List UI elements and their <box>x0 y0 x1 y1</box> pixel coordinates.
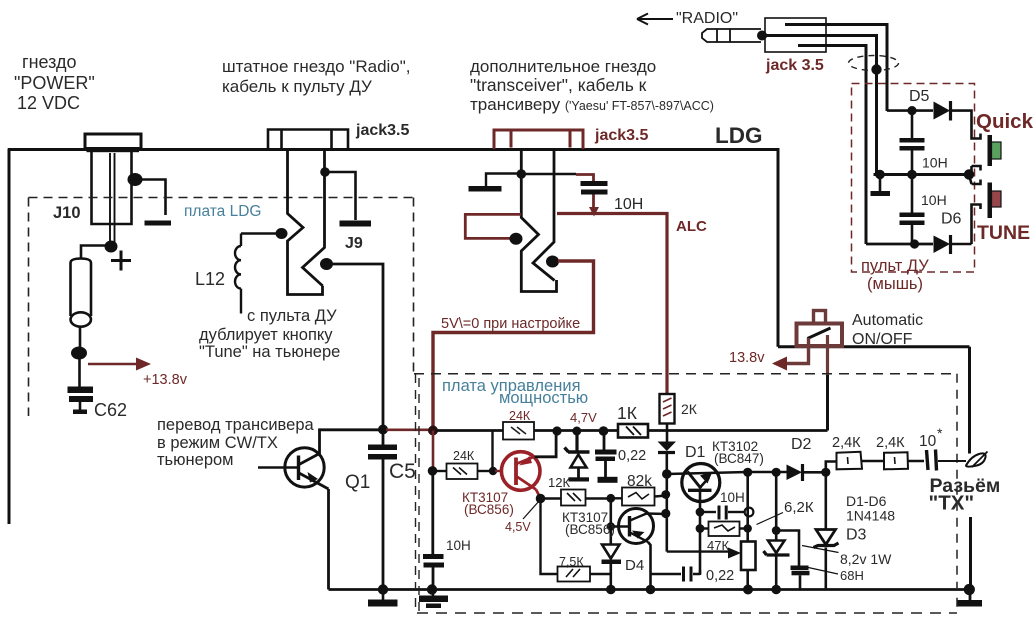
wire: base net to Q4 <box>609 498 612 544</box>
zener VD 4,7V <box>575 431 578 452</box>
svg-text:ALC: ALC <box>676 218 707 235</box>
node: transceiver ring junction <box>510 233 523 245</box>
node: J10 pin junction <box>105 241 118 253</box>
svg-text:ON/OFF: ON/OFF <box>852 331 913 348</box>
svg-text:0,22: 0,22 <box>618 448 646 464</box>
wire: left border rail <box>8 149 11 525</box>
node: emitter resistor junction <box>696 524 705 533</box>
plug jack 3.5 tip <box>702 29 761 42</box>
wire: Q3 emitter down <box>699 491 702 574</box>
connector J10 center pin <box>110 153 115 243</box>
svg-text:1N4148: 1N4148 <box>846 508 895 524</box>
transistor Q2 KT3107 (BC856) <box>501 452 540 491</box>
wire: TX vertical rail <box>968 347 971 454</box>
svg-text:гнездо: гнездо <box>22 52 77 72</box>
diode D5 <box>934 102 951 120</box>
svg-text:13.8v: 13.8v <box>729 350 765 366</box>
svg-text:D1: D1 <box>685 444 706 461</box>
wire: base stub (dark red) <box>495 470 503 472</box>
node: D5 rail junction <box>907 106 916 115</box>
svg-text:J10: J10 <box>53 204 81 222</box>
node: plug tip junction <box>757 31 767 41</box>
leader line 6,2K <box>757 513 784 525</box>
node: middle rail left <box>875 170 885 180</box>
connector jack3.5 Radio shell <box>268 130 348 150</box>
svg-text:(мышь): (мышь) <box>867 275 923 293</box>
dashed box: пульт ДУ <box>852 84 975 273</box>
leader line 68H <box>806 567 838 574</box>
node: base branch junction <box>489 467 497 475</box>
capacitor body (electrolytic cylinder) <box>71 259 92 317</box>
svg-text:(ВС856): (ВС856) <box>464 502 514 517</box>
wire: switch output to board rail <box>826 375 829 431</box>
jack J9 left contact <box>288 150 323 295</box>
arrow: wiper <box>728 548 741 559</box>
node: middle rail center <box>907 170 917 180</box>
capacitor 0,22 (emitter) <box>651 573 682 575</box>
ground: J10 sleeve <box>145 221 172 226</box>
wire: ring contact loop (dark red) <box>465 214 521 238</box>
diode D2 <box>787 465 803 481</box>
socket jack 3.5 body <box>765 18 826 52</box>
svg-text:D6: D6 <box>941 211 962 228</box>
zener 8,2v 1W <box>768 541 785 554</box>
capacitor C5 <box>382 430 385 445</box>
svg-text:jack 3.5: jack 3.5 <box>765 57 824 74</box>
button Quick plate <box>988 135 993 166</box>
arrow +13.8v <box>88 363 138 366</box>
capacitor 10H (ALC filter) <box>581 181 608 186</box>
svg-text:мощностью: мощностью <box>499 389 588 407</box>
connector jack3.5 transceiver shell <box>494 130 583 149</box>
resistor 24K (base, R in) <box>433 470 447 472</box>
node: pot top junction <box>744 524 752 532</box>
svg-text:*: * <box>937 425 943 441</box>
resistor 82k <box>611 497 622 499</box>
wire: sleeve node to ALC capacitor <box>521 173 576 175</box>
node: J9 ring junction <box>276 228 288 239</box>
potentiometer 47K body <box>741 542 756 571</box>
wire: board feed rail 13.8v <box>436 429 828 432</box>
svg-text:4,5V: 4,5V <box>505 520 531 534</box>
wire: Q2 collector to 4.5V node (dark red) <box>536 490 541 499</box>
wire: Q1 base <box>258 466 297 469</box>
wire: 8,2v branch <box>775 472 778 540</box>
wire: top right rail to TX <box>778 345 970 348</box>
node: base net top <box>662 469 672 479</box>
capacitor 10H (emitter) <box>700 511 716 513</box>
svg-text:"ТХ": "ТХ" <box>929 492 975 515</box>
svg-text:кабель к пульту ДУ: кабель к пульту ДУ <box>222 77 372 96</box>
svg-text:с пульта ДУ: с пульта ДУ <box>247 307 337 325</box>
svg-text:дополнительное гнездо: дополнительное гнездо <box>470 57 656 76</box>
resistor 2,4K (first) <box>837 452 863 470</box>
svg-text:C5: C5 <box>389 460 416 483</box>
wire: sleeve to ground <box>486 174 521 187</box>
wire: J9 tip to C5 node <box>331 264 383 427</box>
wire: LDG right rail <box>777 148 780 347</box>
wire: D5 cathode to Quick contact <box>951 111 981 139</box>
wire: cap to TX pin <box>938 460 966 462</box>
svg-text:47К: 47К <box>707 538 729 553</box>
node: 12K-82k junction <box>606 494 615 503</box>
node: transceiver tip junction <box>546 256 559 268</box>
svg-text:12 VDC: 12 VDC <box>17 93 80 113</box>
wire: pot feed vertical <box>746 472 749 541</box>
wire: D5 anode rail <box>887 109 933 112</box>
wire: D6 rail <box>866 243 933 246</box>
svg-text:5V\=0 при настройке: 5V\=0 при настройке <box>441 316 580 332</box>
wire: D6 cathode up <box>951 243 972 246</box>
button TUNE cap (red) <box>992 191 1002 207</box>
capacitor 10* <box>927 450 937 471</box>
wire: 2K to D1 <box>666 424 669 442</box>
svg-text:(ВС847): (ВС847) <box>714 451 764 466</box>
connector pin TX (scribble) <box>966 453 986 466</box>
wire: wiper from base net <box>667 550 731 552</box>
svg-text:10Н: 10Н <box>921 192 947 208</box>
node: 24K feed junction <box>428 466 438 476</box>
svg-text:D4: D4 <box>625 557 644 574</box>
svg-text:L12: L12 <box>195 269 225 289</box>
leader line 4,5V <box>523 501 540 520</box>
ground: transceiver sleeve <box>469 186 502 192</box>
node: C5 bottom junction <box>378 584 388 594</box>
wire: branch to Q2 base <box>491 431 493 472</box>
wire: between 2,4K <box>862 460 885 462</box>
node: C5 top junction <box>378 425 388 435</box>
svg-text:10Н: 10Н <box>614 196 643 213</box>
capacitor 68H <box>776 531 799 566</box>
svg-text:jack3.5: jack3.5 <box>594 127 648 144</box>
node: ALC arrow junction <box>589 207 599 217</box>
svg-text:82k: 82k <box>627 473 652 490</box>
svg-text:тьюнером: тьюнером <box>157 451 234 469</box>
svg-text:10Н: 10Н <box>922 155 948 171</box>
wire: D1 cathode down to wiper elbow <box>665 454 668 552</box>
ground: Radio sleeve <box>340 221 372 227</box>
node: 4.5V junction <box>536 494 546 504</box>
wire: TX vertical rail lower <box>969 517 972 590</box>
arrow RADIO <box>637 14 673 25</box>
node: cable junction <box>871 64 881 74</box>
ground: bottom right <box>969 590 972 602</box>
wire: J10 sleeve to ground <box>134 180 166 216</box>
wire: Q4 emitter down <box>648 542 651 590</box>
svg-text:1К: 1К <box>617 403 638 423</box>
node: J10 sleeve junction <box>128 173 143 186</box>
jack transceiver tip contact <box>533 150 555 281</box>
svg-text:Q1: Q1 <box>345 472 370 493</box>
svg-text:D5: D5 <box>909 88 930 105</box>
capacitor 10H (board input) <box>423 554 444 559</box>
wire: 4.5V node rail <box>541 497 562 499</box>
svg-text:плата LDG: плата LDG <box>184 203 261 220</box>
resistor 2,4K (second) <box>884 452 908 469</box>
button TUNE plate <box>988 183 993 219</box>
connector J10 shell <box>85 134 141 149</box>
svg-text:J9: J9 <box>345 235 363 252</box>
jack J9 tip contact <box>303 150 325 286</box>
wire: switch output (dark red) <box>826 335 829 375</box>
resistor 7,5K <box>541 499 558 575</box>
wire: plug line 3 <box>798 46 866 245</box>
svg-text:перевод трансивера: перевод трансивера <box>157 416 314 434</box>
svg-text:24К: 24К <box>453 449 475 463</box>
svg-text:6,2К: 6,2К <box>784 499 814 516</box>
wire: sleeve to ground <box>325 172 356 220</box>
svg-text:трансиверу ('Yaesu' FT-857\-89: трансиверу ('Yaesu' FT-857\-897\ACC) <box>470 95 714 114</box>
diode D6 <box>934 236 951 254</box>
node: base net 82k <box>661 490 670 499</box>
wire: middle rail <box>874 173 972 176</box>
resistor 2K <box>660 394 675 424</box>
svg-text:"RADIO": "RADIO" <box>676 10 738 27</box>
node: +13.8v tap <box>71 347 87 360</box>
node: rail at zener <box>572 427 581 436</box>
svg-text:+13.8v: +13.8v <box>143 372 188 388</box>
wire: plug line 1 <box>785 25 887 112</box>
wire: D2 out to 2,4K chain <box>826 462 837 473</box>
inductor L12 <box>235 234 241 314</box>
dashed box: плата LDG <box>29 198 414 417</box>
wire: D2 rail <box>667 472 787 474</box>
svg-text:8,2v 1W: 8,2v 1W <box>840 551 892 567</box>
wire: to 10* cap <box>908 460 925 462</box>
svg-text:"Tune" на тьюнере: "Tune" на тьюнере <box>199 343 340 361</box>
wire: tip to 5V control line <box>433 261 594 428</box>
resistor 12K <box>561 490 586 506</box>
svg-text:24К: 24К <box>509 409 531 423</box>
svg-text:10: 10 <box>919 433 937 450</box>
wire: Q2 emitter to rail <box>535 432 557 457</box>
transistor Q4 KT3107 (BC856) <box>611 525 630 527</box>
wire: jumper C5 node to 5V node (dark red) <box>386 428 430 431</box>
wire: pot bottom to rail <box>746 570 749 590</box>
node: bottom right junction <box>964 584 975 595</box>
wire: plug line 2 <box>765 36 877 175</box>
capacitor 10H upper <box>911 111 914 138</box>
svg-text:дублирует кнопку: дублирует кнопку <box>199 326 333 344</box>
wire: bottom rail <box>329 588 970 591</box>
node: 10H bottom junction <box>427 584 437 594</box>
capacitor C62 <box>68 387 94 394</box>
wire: ALC line to 2K <box>557 214 667 395</box>
connector J10 body <box>92 151 132 224</box>
ground: remote middle <box>879 175 882 192</box>
svg-text:в режим CW/TX: в режим CW/TX <box>157 434 278 452</box>
wire: node to 10H cap <box>431 471 434 554</box>
node: Q4 base junction <box>607 522 615 530</box>
node: rail at Q2 emitter <box>552 426 561 435</box>
cable loop (dashed ellipse) <box>849 56 899 71</box>
svg-text:(ВС856): (ВС856) <box>565 522 615 537</box>
node: open circle junction <box>745 508 754 517</box>
polarity plus sign <box>111 251 131 271</box>
svg-text:штатное гнездо "Radio",: штатное гнездо "Radio", <box>222 57 411 76</box>
switch Automatic ON/OFF body <box>797 324 843 347</box>
wire: J10 pin to capacitor body <box>81 246 112 260</box>
resistor (emitter parallel) <box>700 527 748 529</box>
svg-text:2,4К: 2,4К <box>832 435 861 451</box>
svg-text:Quick: Quick <box>976 110 1034 133</box>
wire: 5V node down (dark red) <box>432 431 435 470</box>
svg-text:TUNE: TUNE <box>977 222 1030 244</box>
switch contact: Quick lower <box>972 166 981 175</box>
svg-text:10Н: 10Н <box>720 490 745 505</box>
resistor 24K (top, in rail) <box>503 422 534 440</box>
svg-text:2,4К: 2,4К <box>876 435 905 451</box>
node: J9 tip junction <box>320 258 333 270</box>
svg-text:"transceiver", кабель к: "transceiver", кабель к <box>470 75 647 95</box>
svg-text:Automatic: Automatic <box>852 312 923 329</box>
diode D1 <box>658 442 677 452</box>
node: D2 out junction <box>821 468 830 477</box>
svg-text:2К: 2К <box>681 401 698 417</box>
wire: Q1 emitter down <box>327 489 330 590</box>
switch lever <box>808 328 831 339</box>
svg-text:C62: C62 <box>94 400 127 420</box>
node: zener bottom <box>771 585 781 595</box>
wire: main top rail <box>8 148 778 151</box>
switch contact: TUNE upper <box>969 175 981 185</box>
jack transceiver sleeve contact <box>521 150 556 292</box>
dashed box: плата управления мощностью <box>414 373 955 375</box>
node: D2 rail at 8,2v branch <box>772 468 781 477</box>
node: transceiver sleeve junction <box>517 169 527 179</box>
wire: L12 to J9 ring <box>241 232 276 235</box>
svg-text:4,7V: 4,7V <box>570 410 597 425</box>
wire: node to C62 <box>78 359 81 387</box>
node: D4 bottom <box>606 585 616 595</box>
svg-text:jack3.5: jack3.5 <box>355 122 409 139</box>
svg-text:"POWER": "POWER" <box>14 73 95 93</box>
wire: Q1 collector to C5 node <box>320 430 380 455</box>
svg-text:LDG: LDG <box>715 123 763 148</box>
capacitor 0,22 (filter) <box>603 431 606 450</box>
button Quick cap (green) <box>992 142 1002 159</box>
node: Q4 emitter bottom <box>646 585 656 595</box>
svg-text:D3: D3 <box>846 527 867 544</box>
wire: capacitor to node <box>79 327 82 348</box>
node: D6 rail junction <box>910 239 919 248</box>
resistor 1K <box>618 424 648 438</box>
node: D2 rail at pot feed <box>743 468 752 477</box>
svg-text:10Н: 10Н <box>446 538 471 553</box>
wire: switch to 13.8v arrow (dark red) <box>786 338 809 364</box>
node: Radio sleeve junction <box>320 167 330 177</box>
transistor Q1 <box>285 448 324 487</box>
switch contact: TUNE lower <box>972 205 981 245</box>
diode D4 <box>602 545 620 559</box>
svg-text:0,22: 0,22 <box>706 568 734 584</box>
svg-text:68Н: 68Н <box>840 568 864 583</box>
ground: C5 <box>382 590 385 601</box>
capacitor 10H lower <box>911 175 914 213</box>
node: emitter 10H junction <box>696 508 705 517</box>
node: pot bottom junction <box>743 585 753 595</box>
svg-text:7,5К: 7,5К <box>559 555 584 569</box>
leader line 8,2v <box>802 546 839 553</box>
node: 5V junction <box>428 426 438 436</box>
svg-text:D2: D2 <box>791 436 812 453</box>
svg-text:12К: 12К <box>548 475 570 490</box>
node: middle rail right <box>964 169 974 179</box>
node: rail at 0,22 <box>599 426 609 436</box>
svg-text:пульт ДУ: пульт ДУ <box>861 257 929 275</box>
transistor Q3 KT3102 (BC847) <box>682 464 720 502</box>
ground: board input <box>432 590 435 598</box>
zener D3 <box>824 472 827 529</box>
node: 8,2v split <box>772 526 781 535</box>
node: base net collector <box>661 509 670 518</box>
